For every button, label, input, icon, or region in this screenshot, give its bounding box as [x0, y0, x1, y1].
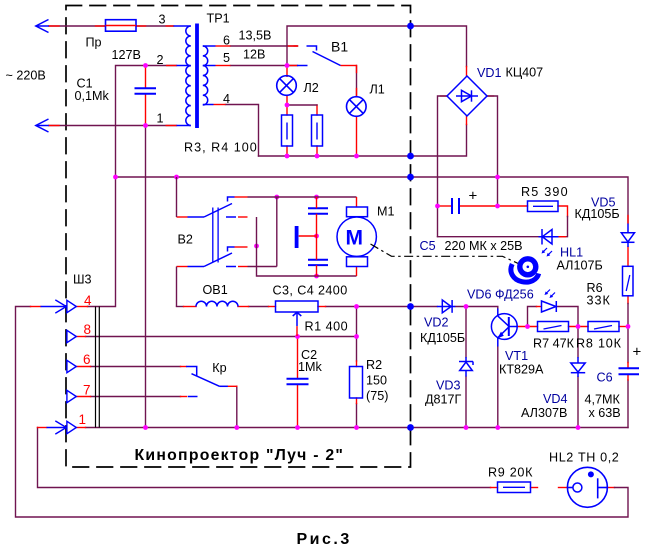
svg-text:С5: С5 — [420, 239, 436, 253]
wire: base row R7/R8 y=326 — [517, 326, 628, 328]
svg-text:127В: 127В — [112, 48, 141, 62]
resistor R2 — [350, 367, 363, 399]
svg-text:R3, R4 100: R3, R4 100 — [184, 141, 258, 155]
svg-text:VD2: VD2 — [424, 316, 449, 330]
dashed unit border (Кинопроектор Луч-2 enclosure) — [66, 6, 411, 468]
svg-text:33К: 33К — [587, 294, 611, 308]
VD6 light arrows — [545, 290, 556, 299]
switch B1 — [294, 46, 357, 66]
svg-text:+: + — [469, 188, 478, 205]
resistor R7 — [538, 322, 569, 332]
connector pin numbers red — [79, 293, 93, 427]
wire: VD3 branch — [465, 307, 467, 428]
svg-text:x 63В: x 63В — [589, 406, 621, 420]
svg-text:VD4: VD4 — [543, 392, 568, 406]
svg-text:АЛ307В: АЛ307В — [521, 406, 567, 420]
wire: R2 branch vertical — [356, 307, 358, 428]
svg-text:Кинопроектор "Луч - 2": Кинопроектор "Луч - 2" — [135, 447, 345, 464]
wire: connector pin 8 row to R2 node — [86, 336, 357, 338]
node: VD4 bottom on bus — [576, 425, 581, 430]
neon lamp HL2 — [567, 467, 607, 507]
wire: mains upper line to fuse and transformer pin3 — [49, 25, 174, 27]
node: B2 NC riser on motor row — [274, 195, 279, 200]
motor M1 brushes — [347, 207, 368, 267]
svg-text:~ 220В: ~ 220В — [6, 69, 46, 83]
mains arrow upper — [36, 20, 49, 33]
svg-text:АЛ107Б: АЛ107Б — [557, 259, 603, 273]
node: C5 plus node — [495, 204, 500, 209]
transformer red lead stubs — [166, 26, 231, 126]
connector pin 1 — [47, 421, 77, 434]
wire: C6 branch — [627, 327, 629, 428]
wire: 12V row from tap 5 to B1 dashes — [231, 65, 298, 67]
node: R7/R8 junction — [576, 324, 581, 329]
svg-text:1: 1 — [157, 112, 164, 126]
svg-text:Кр: Кр — [212, 361, 226, 375]
node: DC rail start x=115 — [113, 175, 118, 180]
node: C1 bottom at neutral — [143, 123, 148, 128]
transistor VT1 — [491, 309, 517, 347]
svg-text:1: 1 — [79, 412, 87, 427]
switch B2 mechanical link — [213, 208, 218, 263]
wire: connector pin 7 row — [91, 396, 181, 398]
resistor R3 — [282, 115, 293, 146]
lamp Л2 — [277, 76, 297, 96]
svg-text:4,7МК: 4,7МК — [585, 393, 621, 407]
wire: HL1 row bottom of loop — [438, 236, 539, 238]
svg-text:Л2: Л2 — [304, 81, 319, 95]
switch B2 pole 1 — [177, 197, 248, 217]
wire: C2 branch vertical — [297, 337, 299, 428]
wire: 12V node up and across to bridge top — [287, 26, 467, 67]
svg-text:ОВ1: ОВ1 — [203, 283, 228, 297]
svg-text:В1: В1 — [331, 39, 348, 55]
motor brush bar — [295, 226, 299, 248]
node: border crossing y=25.5 — [407, 23, 414, 30]
svg-text:(75): (75) — [366, 389, 388, 403]
wire: B1 common down to lamp L1 — [356, 66, 358, 97]
capacitor C4 — [308, 260, 328, 265]
transformer TP1 secondary winding — [203, 46, 216, 105]
switch B2 pole 2 — [177, 247, 248, 267]
HL1 light arrows — [542, 248, 553, 257]
svg-text:ТР1: ТР1 — [207, 12, 230, 26]
node: C1 top at 127V — [143, 63, 148, 68]
svg-text:М: М — [346, 227, 364, 250]
wire: VD4 branch — [577, 327, 579, 428]
wire: connector pin 6 row to Kr switch — [91, 366, 181, 368]
capacitor C5 polar — [452, 198, 459, 214]
connector pin 8 — [67, 330, 76, 342]
wire: L1 bottom to 12V-return bus — [356, 117, 358, 157]
svg-text:R5 390: R5 390 — [521, 185, 569, 199]
wire: bridge right vertex down to DC rail — [487, 96, 498, 206]
diode VD5 — [621, 224, 634, 248]
junction dots on dashed border (blue) — [407, 23, 414, 431]
connector pin 6 — [67, 360, 76, 372]
node: C3 top feed — [314, 195, 319, 200]
wire: C1 branch vertical — [145, 66, 147, 126]
node: R8 right / R6 bottom — [626, 324, 631, 329]
mains arrow lower — [36, 119, 49, 132]
svg-text:0,1Mk: 0,1Mk — [75, 89, 110, 103]
node: R1 output node — [354, 304, 359, 309]
svg-text:R8 10К: R8 10К — [576, 337, 622, 351]
svg-text:3: 3 — [159, 13, 166, 27]
film sprocket / photo target ring — [511, 259, 539, 282]
LED HL1 — [539, 229, 559, 245]
node: B2 right link — [254, 244, 259, 249]
node: border crossing y=306 — [407, 303, 414, 310]
transformer TP1 primary winding — [174, 26, 191, 126]
wire: lamp L2 feeds — [287, 66, 317, 157]
svg-text:Рис.3: Рис.3 — [297, 531, 352, 548]
svg-text:В2: В2 — [178, 233, 193, 247]
photodiode VD6 — [541, 301, 556, 312]
node: R2 bottom on bus — [354, 425, 359, 430]
capacitor C6 polar — [619, 368, 640, 374]
svg-text:КД105Б: КД105Б — [575, 207, 620, 221]
svg-text:+: + — [633, 344, 642, 361]
svg-text:С3, С4 2400: С3, С4 2400 — [273, 284, 348, 298]
wire: transformer tap 4 down to return bus — [226, 105, 259, 157]
connector pin 7 — [67, 390, 76, 402]
node: C2 top — [295, 334, 300, 339]
svg-text:6: 6 — [223, 34, 230, 48]
wire: 13.5V row from tap 6 to B1 — [231, 45, 298, 47]
svg-text:220 МК x 25В: 220 МК x 25В — [445, 239, 523, 253]
svg-text:8: 8 — [84, 322, 92, 337]
node: VD3 bottom on bus — [464, 425, 469, 430]
wire: B2 right throws vertical to motor row — [248, 197, 357, 276]
node: R3 bottom on return bus — [285, 154, 290, 159]
wire: R5 right down to HL1 row — [559, 217, 568, 237]
svg-text:С6: С6 — [597, 371, 613, 385]
svg-text:VD3: VD3 — [436, 379, 461, 393]
resistor R9 — [498, 482, 531, 493]
junction dots (magenta) — [113, 63, 630, 430]
node: VT1 emitter on bus — [495, 425, 500, 430]
wire: L2 bottom to R4 top — [287, 104, 317, 106]
zener diode VD3 — [459, 357, 473, 377]
wire: VD6 parallel loop over R7 — [528, 307, 579, 327]
svg-text:Л1: Л1 — [370, 83, 385, 97]
resistor R4 — [312, 115, 323, 146]
connector Ш3 bars — [96, 307, 100, 428]
wire: bridge bottom stub — [441, 67, 494, 125]
node: R2 top — [354, 334, 359, 339]
wire: bridge left vertex down to C5/HL1 loop — [438, 96, 448, 237]
wire: positive DC rail y=176.5 across to right column — [116, 177, 629, 223]
svg-text:5: 5 — [223, 51, 230, 65]
node: DC rail B2 feed x=176 — [174, 175, 179, 180]
svg-text:HL2 ТН 0,2: HL2 ТН 0,2 — [549, 451, 619, 465]
resistor R1 — [276, 301, 319, 312]
resistor R5 — [528, 201, 559, 212]
wire: common bus y=427 — [86, 427, 629, 429]
node: C3/C4 midpoint — [314, 234, 319, 239]
diode VD2 — [437, 300, 455, 313]
svg-text:6: 6 — [83, 352, 91, 367]
svg-text:HL1: HL1 — [560, 246, 583, 260]
svg-text:Ш3: Ш3 — [73, 273, 92, 287]
capacitor C2 — [287, 379, 309, 384]
fuse Пр — [106, 20, 137, 32]
motor M1 — [337, 217, 376, 256]
svg-text:М1: М1 — [377, 205, 395, 219]
node: 12V lamp node — [285, 63, 290, 68]
wire: return bus y=155.5 to bridge bottom — [259, 125, 467, 157]
svg-text:VT1: VT1 — [505, 349, 528, 363]
transformer TP1 core — [195, 24, 199, 129]
svg-text:2: 2 — [157, 53, 164, 67]
wire: B2 left common vertical — [176, 177, 178, 307]
connector pin 4 — [41, 300, 77, 313]
node: C2 bottom on bus — [295, 425, 300, 430]
R1 adjustment arrow — [293, 312, 302, 336]
capacitor C3 — [308, 208, 328, 213]
svg-text:7: 7 — [83, 383, 91, 398]
node: border crossing y=155.5 — [407, 153, 414, 160]
svg-text:13,5В: 13,5В — [239, 29, 272, 43]
svg-text:150: 150 — [366, 374, 387, 388]
capacitor C1 — [135, 88, 157, 94]
svg-text:VD6 ФД256: VD6 ФД256 — [467, 288, 534, 302]
wire: right column VD5-R6 — [627, 216, 629, 304]
node: C4 bottom — [314, 274, 319, 279]
wire: pin1 lead out left and down to HL2 row — [38, 428, 491, 488]
node: L2 bottom — [285, 103, 290, 108]
resistor R6 — [623, 266, 634, 296]
node: neutral on bus — [143, 425, 148, 430]
switch Kр — [186, 367, 228, 397]
node: border crossing y=427 — [407, 424, 414, 431]
svg-text:Д817Г: Д817Г — [425, 393, 462, 407]
wire: 127V tap, node 2 down to connector pin 4 — [88, 66, 177, 307]
node: Kr on bus — [234, 425, 239, 430]
svg-text:R7 47К: R7 47К — [533, 337, 575, 351]
svg-text:R9 20К: R9 20К — [488, 466, 533, 480]
wire: capacitor feeds red — [299, 197, 357, 276]
node: VT1 base node — [525, 324, 530, 329]
node: VD2/VD3 node — [464, 304, 469, 309]
bridge rectifier VD1 — [447, 76, 487, 116]
wire: mains lower line to transformer pin1 — [49, 125, 177, 127]
svg-text:Пр: Пр — [86, 36, 102, 50]
node: R4 bottom on return bus — [315, 154, 320, 159]
motor shaft dash-dot link — [371, 244, 522, 265]
node: L1 bottom on return bus — [354, 154, 359, 159]
wire: C5 / R5 row — [438, 206, 568, 217]
svg-text:R2: R2 — [366, 358, 382, 372]
svg-text:12В: 12В — [243, 48, 265, 62]
node: C5 left node — [435, 204, 440, 209]
wire: neutral long vertical x=145 down to bus — [145, 126, 147, 428]
svg-text:4: 4 — [84, 293, 92, 308]
lamp Л1 — [347, 97, 367, 117]
LED VD4 — [571, 357, 585, 377]
svg-text:КТ829А: КТ829А — [499, 363, 544, 377]
svg-text:VD1: VD1 — [477, 66, 502, 80]
resistor R8 — [588, 322, 619, 332]
svg-text:4: 4 — [223, 92, 230, 106]
svg-text:R1 400: R1 400 — [305, 319, 349, 333]
svg-text:КЦ407: КЦ407 — [506, 66, 544, 80]
wire: HL2 right side loop back to pin 4 — [16, 307, 629, 518]
svg-text:1Мk: 1Мk — [298, 360, 322, 374]
wire: VT1 emitter down to bus — [497, 347, 499, 428]
coil OB1 — [196, 301, 238, 306]
svg-text:КД105Б: КД105Б — [420, 331, 465, 345]
node: DC rail at bridge output — [495, 175, 500, 180]
wire: Kr switch output down to bus — [236, 386, 238, 427]
wire: main control row y=306 from B2 through R1 to VT1 — [177, 307, 498, 309]
node: border crossing y=176.5 — [407, 174, 414, 181]
